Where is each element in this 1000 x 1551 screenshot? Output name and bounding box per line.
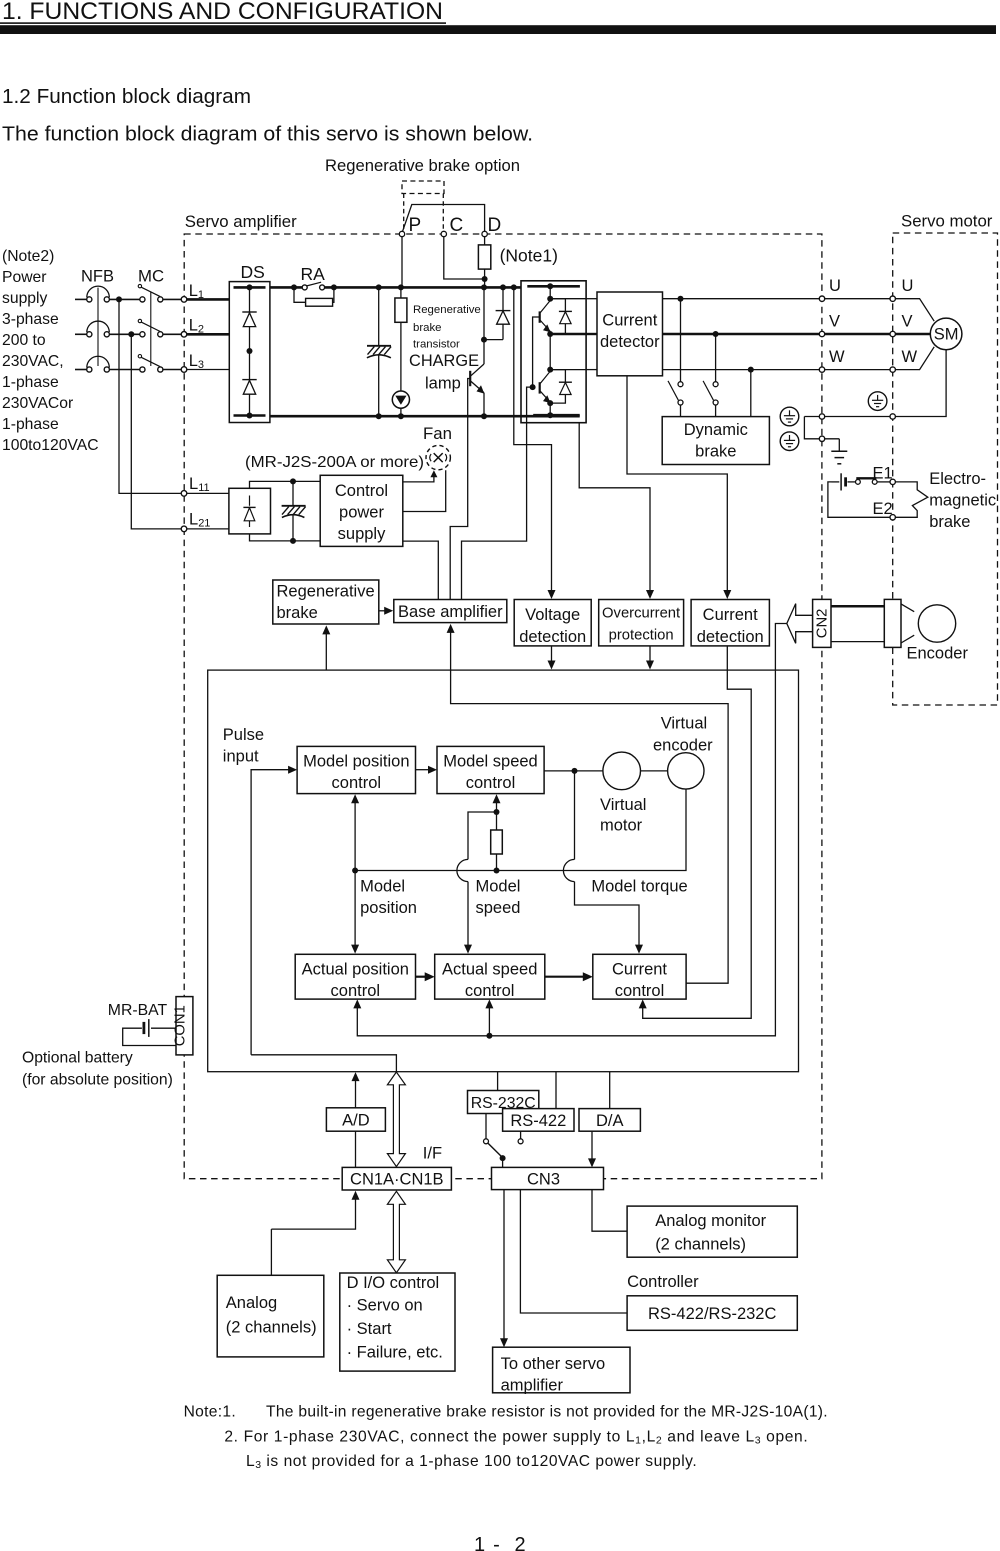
node W dynamic brake tap (748, 367, 754, 373)
pulse input wire (251, 770, 291, 1055)
svg-text:1-phase: 1-phase (2, 374, 59, 391)
wire U to dynamic brake switch (680, 299, 682, 382)
module mid rail (549, 334, 551, 370)
node bus/RA right (331, 284, 337, 290)
model speed feedback tap with jog (494, 809, 500, 815)
connector CN3 box (492, 1167, 604, 1189)
svg-text:Servo motor: Servo motor (901, 212, 993, 231)
A/D box (326, 1108, 385, 1131)
wire NFB to MC L1 (109, 298, 139, 300)
MC contact L3 (140, 367, 145, 372)
motor lead W (895, 347, 934, 370)
svg-text:(Note2): (Note2) (2, 248, 54, 265)
svg-text:E1: E1 (873, 465, 893, 483)
control circuit diode box (229, 488, 271, 534)
svg-text:input: input (223, 748, 259, 766)
svg-text:supply: supply (2, 290, 48, 307)
fan supply wire 1 (403, 475, 434, 482)
wire RS-232C to control section (497, 1071, 499, 1090)
wire bus voltage tap to voltage detection (514, 287, 552, 595)
terminal E1 (890, 479, 895, 484)
dynamic brake switch U (678, 382, 683, 387)
svg-text:Model: Model (476, 878, 521, 896)
wire from L2 junction down to L21 (131, 334, 181, 529)
svg-text:Actual position: Actual position (302, 961, 409, 979)
terminal D (482, 231, 487, 236)
svg-text:The function block diagram of: The function block diagram of this servo… (2, 122, 533, 145)
svg-text:detection: detection (519, 628, 586, 646)
wire L3 input stub (75, 369, 87, 371)
digital I/O hollow arrow (387, 1191, 405, 1273)
main DC bus P-side right segment (325, 286, 521, 289)
svg-text:protection: protection (609, 628, 674, 644)
svg-text:V: V (829, 312, 840, 330)
svg-text:L11: L11 (189, 475, 210, 494)
node bus/RA left (291, 284, 297, 290)
svg-text:control: control (331, 982, 381, 1000)
connector CN2 (813, 599, 831, 647)
svg-text:Current: Current (703, 606, 758, 624)
svg-text:control: control (332, 774, 382, 792)
voltage detection box (514, 600, 591, 646)
motor terminal W (890, 367, 895, 372)
thick header bar (0, 25, 996, 34)
terminal L1 (181, 297, 187, 303)
wire diode box to control power supply bottom (250, 534, 321, 541)
svg-text:Regenerative brake option: Regenerative brake option (325, 156, 520, 175)
phase wire W (663, 369, 820, 371)
module internal N bar (547, 412, 553, 418)
svg-text:CHARGE: CHARGE (409, 352, 479, 370)
to other servo amplifier box (493, 1347, 630, 1393)
svg-text:(2 channels): (2 channels) (655, 1236, 746, 1254)
module lower gate lead (527, 387, 533, 423)
motor lead U (895, 299, 934, 322)
phase wires module to current detector (586, 298, 597, 300)
terminal L11 (181, 491, 187, 497)
module phase stub W (550, 369, 586, 371)
node cap top (290, 478, 296, 484)
wire A/D to CN1A/CN1B (355, 1131, 357, 1167)
terminal P (399, 231, 404, 236)
wire D/A to control section (609, 1071, 611, 1108)
rectifier DS box (229, 282, 270, 423)
svg-text:RS-422: RS-422 (510, 1112, 566, 1130)
battery MR-BAT (151, 1027, 176, 1029)
title underline rule (0, 22, 446, 24)
svg-text:position: position (360, 899, 417, 917)
regenerative brake transistor symbol Q1 (469, 371, 471, 386)
control power supply box (320, 475, 403, 546)
module upper freewheel diode (550, 299, 565, 312)
svg-text:L1: L1 (189, 282, 204, 301)
control circuit capacitor (292, 484, 294, 507)
brake loop right side with break symbol (895, 482, 927, 517)
node: C/D resistor junction (482, 276, 488, 282)
current detection box (691, 600, 769, 646)
module phase stub V (550, 333, 586, 335)
fan symbol (426, 445, 450, 469)
overcurrent protection box (599, 600, 684, 646)
ground terminal on motor boundary (890, 414, 895, 419)
wire L2 terminal to DS (187, 333, 230, 336)
svg-text:L2: L2 (189, 317, 204, 336)
wire model speed output (544, 770, 603, 772)
serial selector switch (485, 1114, 487, 1139)
motor terminal V (890, 331, 895, 336)
terminal L21 (181, 526, 187, 532)
svg-text:brake: brake (413, 322, 442, 334)
servo amplifier dashed boundary box (184, 234, 822, 1179)
svg-text:Electro-: Electro- (929, 470, 986, 488)
svg-text:RS-422/RS-232C: RS-422/RS-232C (648, 1305, 776, 1323)
svg-text:3-phase: 3-phase (2, 311, 59, 328)
wire A/D to control section (355, 1076, 357, 1108)
svg-text:P: P (409, 215, 422, 236)
svg-text:Regenerative: Regenerative (277, 583, 375, 601)
model position feedback vertical (354, 799, 356, 950)
relay contact RA (302, 285, 307, 290)
wire virtual motor to virtual encoder (641, 770, 668, 772)
svg-text:Dynamic: Dynamic (684, 421, 748, 439)
RA bypass resistor (294, 287, 306, 302)
NFB contact L2 (87, 332, 92, 337)
svg-text:Model torque: Model torque (591, 878, 687, 896)
svg-text:Base amplifier: Base amplifier (398, 603, 503, 621)
svg-text:C: C (450, 215, 464, 236)
svg-text:Optional battery: Optional battery (22, 1050, 133, 1067)
svg-text:· Failure, etc.: · Failure, etc. (347, 1344, 443, 1362)
svg-text:power: power (339, 504, 384, 522)
svg-text:encoder: encoder (653, 736, 713, 754)
encoder body (901, 604, 914, 612)
module gate link (533, 317, 540, 387)
module lower IGBT (539, 382, 541, 393)
svg-text:Model position: Model position (303, 753, 409, 771)
Q1 base drive wire to base amplifier (450, 379, 470, 600)
protective earth symbol upper-left (780, 407, 799, 426)
NFB trip link bar (97, 288, 99, 366)
wire from L1 junction down to L11 (119, 299, 181, 493)
svg-text:· Start: · Start (347, 1320, 392, 1338)
svg-text:Servo amplifier: Servo amplifier (185, 212, 297, 231)
protective earth symbol motor (868, 392, 887, 411)
wire bus down to regen transistor collector (483, 287, 485, 364)
arrow actual position to actual speed (416, 976, 428, 978)
node N bus / Q1 emitter (481, 413, 487, 419)
svg-text:(MR-J2S-200A or more): (MR-J2S-200A or more) (245, 454, 424, 471)
RS-422 box (503, 1109, 574, 1132)
svg-text:200 to: 200 to (2, 332, 46, 349)
wire NFB to MC L2 (109, 333, 139, 335)
current detector box (597, 292, 663, 376)
dynamic brake box (662, 417, 769, 465)
wire L3 terminal to DS (187, 369, 230, 371)
servo motor SM (930, 318, 962, 350)
terminal E2 (890, 515, 895, 520)
virtual motor circle (603, 752, 641, 790)
svg-text:amplifier: amplifier (501, 1377, 564, 1395)
motor lead V (895, 333, 930, 335)
svg-text:Overcurrent: Overcurrent (602, 605, 680, 621)
svg-text:supply: supply (338, 525, 386, 543)
arrow regenerative brake to base amplifier (379, 610, 387, 612)
encoder cable (831, 605, 884, 608)
connector CN1A CN1B box (342, 1167, 451, 1190)
svg-text:control: control (615, 982, 665, 1000)
smoothing capacitor (378, 287, 380, 346)
svg-text:Power: Power (2, 269, 46, 286)
module phase stub U (550, 298, 586, 300)
wire MC to terminal L2 (163, 333, 181, 335)
svg-text:Pulse: Pulse (223, 726, 264, 744)
svg-text:L21: L21 (189, 511, 210, 530)
wire resistor to CHARGE lamp (400, 322, 402, 391)
wire NFB to MC L3 (109, 369, 139, 371)
brake power battery (832, 481, 840, 483)
svg-text:U: U (829, 277, 841, 295)
NFB contact L3 (87, 367, 92, 372)
analog monitor box (627, 1206, 797, 1257)
svg-text:SM: SM (934, 326, 959, 344)
svg-text:RA: RA (301, 264, 326, 284)
svg-text:1.2 Function block diagram: 1.2 Function block diagram (2, 86, 251, 108)
svg-text:1-phase: 1-phase (2, 416, 59, 433)
svg-text:U: U (902, 277, 914, 295)
regenerative brake option dashed resistor (402, 181, 444, 194)
wire CN3 to analog monitor (592, 1190, 627, 1232)
analog input box (217, 1275, 324, 1357)
model speed control box (437, 746, 544, 793)
svg-text:I/F: I/F (423, 1145, 442, 1163)
svg-text:100to120VAC: 100to120VAC (2, 437, 99, 454)
wire diode box to control power supply top (250, 481, 321, 488)
svg-text:CON1: CON1 (172, 1005, 188, 1046)
brake release switch (856, 480, 861, 485)
main DC bus P-side left segment (270, 286, 302, 289)
wire L2 input stub (75, 333, 87, 335)
module upper IGBT (549, 286, 551, 298)
node collector/diode (481, 337, 487, 343)
wire current detection to current control (643, 646, 752, 1018)
svg-text:Model speed: Model speed (443, 753, 537, 771)
module lower freewheel diode (550, 370, 565, 383)
svg-text:230VAC,: 230VAC, (2, 353, 64, 370)
wire L1 input stub (75, 298, 87, 300)
svg-text:D/A: D/A (596, 1112, 624, 1130)
svg-text:brake: brake (277, 604, 318, 622)
node bus to capacitor (376, 284, 382, 290)
node N bus / lamp (398, 413, 404, 419)
D I/O control box (340, 1273, 455, 1371)
svg-text:Controller: Controller (627, 1273, 699, 1291)
wire current detector to current detection block (627, 376, 727, 596)
RS-232C box (468, 1091, 539, 1114)
svg-text:detection: detection (697, 628, 764, 646)
MC link bar (150, 292, 152, 367)
model torque wire (574, 771, 576, 860)
svg-text:Actual speed: Actual speed (442, 961, 537, 979)
virtual encoder feedback line (355, 789, 686, 870)
wire lamp to N bus (400, 408, 402, 416)
node bus voltage tap (511, 284, 517, 290)
wire C down and right to node under resistor (444, 237, 485, 279)
svg-text:magnetic: magnetic (929, 492, 996, 510)
damping resistor (496, 812, 498, 830)
actual position control box (295, 954, 415, 999)
svg-text:Voltage: Voltage (525, 606, 580, 624)
base amplifier box (394, 600, 507, 623)
svg-text:DS: DS (241, 262, 265, 282)
junction on L1 feeding L11 (116, 296, 122, 302)
wire MC to terminal L3 (163, 369, 181, 371)
encoder feedback wire down to position/speed control (357, 624, 787, 1036)
svg-text:D I/O control: D I/O control (347, 1274, 440, 1292)
wire module to overcurrent protection (579, 423, 650, 596)
junction on L2 feeding L21 (128, 331, 134, 337)
dashed lead from option resistor to terminal P (403, 194, 405, 231)
arrow control section to regenerative brake box (325, 630, 327, 671)
amplifier ground jog wire (804, 417, 839, 439)
phase wires to motor terminals (825, 298, 890, 300)
svg-text:1 - 2: 1 - 2 (474, 1534, 527, 1551)
svg-text:MC: MC (138, 267, 164, 286)
DS internal bus bars and diodes (234, 286, 266, 289)
main DC bus N-side (270, 415, 580, 418)
amplifier output terminal W (819, 367, 824, 372)
CHARGE lamp (392, 391, 409, 408)
svg-text:motor: motor (600, 817, 643, 835)
wire CN3 to controller (520, 1190, 627, 1313)
node N bus / capacitor (376, 413, 382, 419)
node bus to C/D branch (481, 284, 487, 290)
svg-text:Current: Current (602, 312, 657, 330)
MC contact L2 (140, 332, 145, 337)
regenerative brake control box (273, 580, 379, 624)
svg-text:· Servo on: · Servo on (347, 1297, 423, 1315)
svg-text:detector: detector (600, 333, 660, 351)
svg-text:Virtual: Virtual (600, 796, 646, 814)
svg-text:V: V (902, 312, 913, 330)
wire control power supply to base amplifier (403, 541, 439, 599)
svg-text:control: control (466, 774, 516, 792)
MC contact L1 (140, 297, 145, 302)
svg-text:Current: Current (612, 961, 667, 979)
svg-text:L3 is not provided for a 1-pha: L3 is not provided for a 1-phase 100 to1… (246, 1453, 697, 1471)
digital control section box (208, 670, 799, 1072)
arrow overcurrent protection to control section (649, 646, 651, 666)
brake loop left side (828, 482, 890, 517)
actual speed control box (435, 954, 545, 999)
node cap bottom (290, 538, 296, 544)
D/A box (579, 1109, 640, 1132)
regen freewheel diode (500, 284, 506, 290)
svg-text:CN2: CN2 (815, 609, 831, 639)
svg-text:NFB: NFB (81, 268, 114, 286)
node damping resistor to feedback line (494, 868, 500, 874)
wire W to dynamic brake box (750, 370, 752, 417)
earth ground symbol (838, 439, 840, 451)
svg-text:Model: Model (360, 878, 405, 896)
gate drive wire to power module (462, 423, 527, 600)
svg-text:transistor: transistor (413, 339, 460, 351)
svg-text:Note:1.The built-in regenerati: Note:1.The built-in regenerative brake r… (184, 1404, 828, 1421)
motor frame ground wire (804, 350, 946, 417)
servo motor dashed boundary box (893, 233, 998, 705)
arrow actual speed to current control (545, 976, 586, 978)
node model torque tap (572, 768, 578, 774)
svg-text:CN3: CN3 (527, 1171, 560, 1189)
node U dynamic brake tap (678, 296, 684, 302)
svg-text:Fan: Fan (423, 424, 452, 443)
svg-text:Analog monitor: Analog monitor (655, 1212, 766, 1230)
terminal L2 (181, 332, 187, 338)
svg-text:W: W (829, 348, 845, 366)
jumper wire P to D (403, 205, 485, 232)
NFB contact L1 (87, 297, 92, 302)
svg-text:E2: E2 (873, 500, 893, 518)
model position control box (297, 746, 415, 793)
svg-text:Control: Control (335, 482, 388, 500)
current control box (593, 954, 686, 999)
encoder feedback hollow arrow into amplifier (787, 604, 813, 644)
svg-text:speed: speed (476, 899, 521, 917)
arrow model position to model speed (416, 769, 432, 771)
wire RS-422 to control section (555, 1071, 557, 1108)
node bus to regenerative resistor / P terminal (398, 284, 404, 290)
ground terminal on amplifier boundary (upper) (819, 414, 824, 419)
wire L11 to control diode box (187, 492, 229, 494)
regenerative brake resistor (400, 287, 402, 298)
encoder connector (884, 599, 901, 647)
arrow D/A to CN3 (591, 1131, 593, 1163)
virtual encoder circle (668, 753, 704, 789)
svg-text:To other servo: To other servo (501, 1355, 606, 1373)
wire V to dynamic brake switch (715, 334, 717, 382)
svg-text:Regenerative: Regenerative (413, 304, 481, 316)
wire L21 to control diode box (187, 528, 229, 530)
svg-text:Virtual: Virtual (661, 715, 707, 733)
svg-text:Analog: Analog (226, 1294, 277, 1312)
node V dynamic brake tap (713, 331, 719, 337)
fan supply wire 2 (403, 470, 446, 511)
node encoder feedback to speed control (486, 1033, 492, 1039)
phase wire U (663, 298, 820, 300)
I/F hollow arrow (387, 1072, 405, 1167)
controller RS-422/RS-232C box (627, 1296, 797, 1331)
terminal C (441, 231, 446, 236)
svg-text:(Note1): (Note1) (500, 246, 558, 266)
motor terminal U (890, 296, 895, 301)
svg-text:2. For 1-phase 230VAC, connect: 2. For 1-phase 230VAC, connect the power… (224, 1428, 808, 1446)
ground terminal on amplifier boundary (lower) (819, 436, 824, 441)
wire MC to terminal L1 (163, 298, 181, 300)
amplifier output terminal U (819, 296, 824, 301)
power transistor module box (521, 281, 586, 423)
svg-text:lamp: lamp (425, 375, 461, 393)
dynamic brake switch V (713, 382, 718, 387)
arrow into model speed control bottom (496, 799, 498, 813)
svg-text:brake: brake (929, 513, 970, 531)
svg-text:(for absolute position): (for absolute position) (22, 1072, 173, 1089)
svg-text:Encoder: Encoder (907, 645, 969, 663)
resistor (Note1) on D terminal (484, 237, 486, 245)
wire CN3 to other servo amplifier (503, 1190, 505, 1344)
wire L1 terminal to DS (187, 298, 230, 301)
svg-text:(2 channels): (2 channels) (226, 1319, 317, 1337)
wire current control output to base amplifier (451, 628, 728, 983)
phase wire V (663, 333, 820, 335)
